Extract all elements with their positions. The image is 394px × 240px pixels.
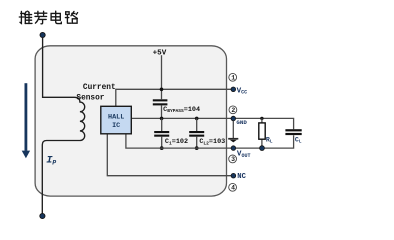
svg-text:+5V: +5V (153, 49, 167, 57)
svg-text:Current: Current (83, 84, 116, 92)
svg-text:CL2=103: CL2=103 (199, 138, 225, 146)
resistor RL (259, 117, 273, 151)
junction: bypass cap on GND line (160, 117, 164, 121)
wire VOUT: from hall output pin to load (126, 134, 294, 148)
junction: CL2 bottom on VOUT line (195, 146, 199, 150)
char 电 (51, 11, 61, 23)
junction: CL2 top on GND line (195, 117, 199, 121)
sensor module body (35, 46, 226, 196)
svg-text:4: 4 (231, 185, 235, 192)
svg-text:Sensor: Sensor (76, 94, 104, 102)
wire: primary conductor with coil L (primary winding) (42, 38, 84, 214)
junction: +5V / Vcc line (160, 88, 164, 92)
svg-text:VOUT: VOUT (237, 151, 251, 159)
pin 4 NC (229, 173, 247, 191)
label Current Sensor (76, 84, 115, 102)
pin 1 Vcc (229, 73, 247, 95)
capacitor C1=102 (154, 118, 188, 148)
pin 2 GND (229, 106, 247, 126)
char 荐 (35, 11, 47, 24)
wire: +5V rail drop to bypass cap (161, 55, 163, 99)
svg-text:RL: RL (266, 137, 273, 145)
wire NC: from hall pin to pin 4 (107, 134, 233, 176)
svg-text:IC: IC (112, 122, 120, 130)
pin 3 VOUT (229, 146, 251, 163)
junction: C1 bottom on VOUT line (160, 146, 164, 150)
capacitor CL2=103 (189, 118, 225, 148)
svg-text:C1=102: C1=102 (165, 138, 188, 146)
char 路 (65, 11, 77, 23)
capacitor C_BYPASS=104 (153, 99, 200, 118)
node A: primary input terminal dot (40, 32, 45, 37)
svg-text:2: 2 (231, 107, 235, 114)
node B: primary output terminal dot (40, 213, 45, 218)
svg-text:VCC: VCC (237, 87, 248, 95)
svg-text:GND: GND (236, 119, 247, 126)
svg-text:P: P (52, 160, 56, 167)
hall ic U1 (101, 106, 132, 134)
svg-text:CL: CL (295, 137, 302, 145)
char 推 (19, 11, 32, 23)
wire Vcc: hall supply pin up and right to pin 1 (116, 89, 234, 106)
svg-text:1: 1 (231, 75, 235, 82)
ground: signal ground below pin 2 (228, 121, 238, 143)
svg-text:HALL: HALL (108, 114, 124, 122)
svg-text:NC: NC (237, 173, 246, 181)
wire GND: from hall ic right side to load network (131, 118, 293, 129)
label Ip (46, 155, 56, 167)
svg-text:3: 3 (231, 156, 235, 163)
capacitor CL (285, 129, 301, 145)
arrow: Ip current direction (22, 83, 30, 158)
title 推荐电路 (19, 11, 77, 24)
